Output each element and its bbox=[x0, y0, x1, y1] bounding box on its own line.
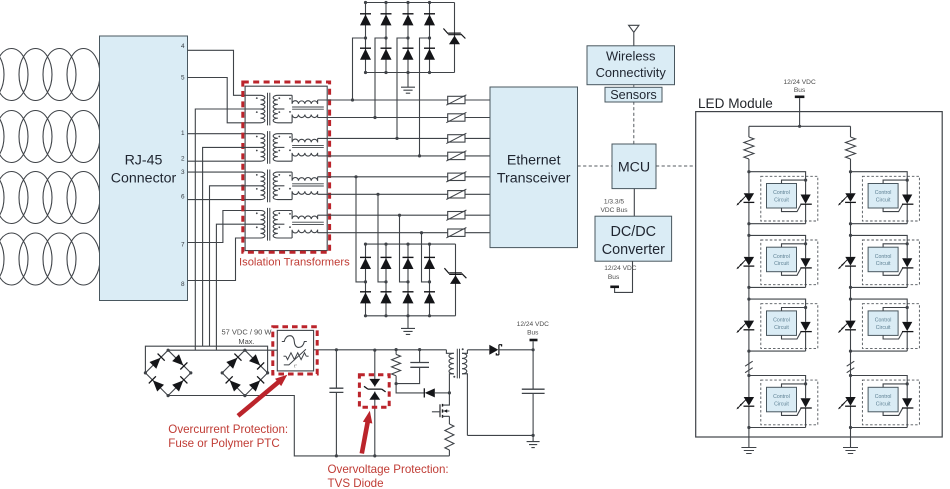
bottom rectifier diode column 1 bbox=[360, 243, 371, 318]
wire bridge AC rail upper bbox=[145, 346, 267, 373]
top rectifier ground bbox=[407, 73, 409, 88]
svg-text:12/24 VDC: 12/24 VDC bbox=[517, 321, 549, 328]
fuse/PTC black box bbox=[277, 330, 313, 371]
svg-text:Circuit: Circuit bbox=[774, 401, 789, 407]
wire bottom rectifier tap 8 bbox=[420, 231, 430, 282]
svg-text:LED Module: LED Module bbox=[698, 96, 773, 111]
LED Module box bbox=[696, 112, 943, 437]
twisted pair cable 4 bbox=[0, 233, 100, 285]
wire stage link 1-2 (right) bbox=[850, 224, 852, 236]
wire pin 8 to T4 bbox=[188, 238, 261, 281]
transformer T1 polarity dots bbox=[256, 97, 291, 113]
svg-text:Transceiver: Transceiver bbox=[497, 171, 571, 187]
wire DC/DC 12V output bbox=[615, 261, 633, 292]
svg-text:Fuse or Polymer PTC: Fuse or Polymer PTC bbox=[168, 437, 279, 450]
TVS red dashed box bbox=[359, 375, 389, 408]
transformer T4 secondary tap stub bbox=[278, 223, 285, 225]
transformer T4 choke top winding bbox=[292, 211, 318, 220]
wire clamp node to diode bbox=[396, 384, 424, 393]
svg-text:Circuit: Circuit bbox=[774, 261, 789, 267]
transformer T2 polarity dots bbox=[256, 136, 291, 152]
wire signal line 3 bbox=[318, 137, 490, 139]
RJ-45 connector bbox=[100, 36, 188, 301]
svg-text:8: 8 bbox=[181, 281, 185, 288]
termination impedance Z8 bbox=[446, 228, 466, 238]
transformer T1 secondary winding bbox=[273, 95, 292, 123]
svg-text:Circuit: Circuit bbox=[876, 261, 891, 267]
wire pin 7 to T4 bbox=[188, 211, 261, 243]
termination impedance Z7 bbox=[446, 210, 466, 220]
isolation transformers enclosure bbox=[245, 86, 327, 250]
svg-text:Wireless: Wireless bbox=[606, 48, 655, 63]
label 12/24 VDC Bus (LED) bbox=[783, 79, 815, 94]
transformer T2 choke exits bbox=[317, 138, 319, 156]
wire top rectifier tap 2 bbox=[373, 38, 386, 119]
isolation transformers red dashed box bbox=[243, 82, 330, 252]
svg-text:Control: Control bbox=[773, 254, 790, 260]
transformer T2 primary winding bbox=[261, 134, 265, 162]
label 12/24 VDC Bus (output) bbox=[517, 321, 549, 336]
bottom rectifier TVS diode bbox=[444, 244, 466, 316]
LED string ground (left) bbox=[748, 428, 750, 448]
svg-text:Isolation Transformers: Isolation Transformers bbox=[239, 256, 350, 268]
svg-text:DC/DC: DC/DC bbox=[611, 224, 657, 240]
DC/DC Converter box bbox=[595, 216, 672, 261]
label Overvoltage Protection bbox=[328, 463, 449, 489]
wire signal line 4 bbox=[318, 155, 490, 157]
svg-text:Circuit: Circuit bbox=[774, 198, 789, 204]
wire stage link 1-2 (left) bbox=[748, 224, 750, 236]
secondary ground symbol bbox=[527, 442, 540, 448]
transformer T4 secondary winding bbox=[273, 211, 292, 239]
transformer T3 secondary winding bbox=[273, 172, 292, 200]
svg-text:1: 1 bbox=[181, 130, 185, 137]
wire pin 2 to T2 bbox=[188, 160, 261, 162]
Ethernet Transceiver box bbox=[490, 87, 578, 248]
terminal 12/24 VDC bus (LED) bbox=[795, 97, 805, 127]
transformer T4 choke exits bbox=[317, 215, 319, 233]
wire bridge AC rail lower bbox=[168, 349, 277, 351]
top rectifier rails bbox=[366, 3, 455, 73]
Sensors box bbox=[605, 87, 662, 102]
svg-text:12/24 VDC: 12/24 VDC bbox=[604, 265, 636, 272]
termination impedance Z1 bbox=[446, 95, 466, 105]
wire T2 primary center tap to bridge bbox=[203, 147, 261, 346]
LED string ground (right) bbox=[850, 428, 852, 448]
transformer T3 choke bottom winding bbox=[292, 191, 318, 199]
antenna bbox=[629, 25, 639, 46]
wire stage link 3-4 (left) bbox=[748, 351, 750, 375]
wire signal line 7 bbox=[318, 214, 490, 216]
bridge rectifier BR1 bbox=[144, 349, 193, 398]
svg-text:2: 2 bbox=[181, 156, 185, 163]
transformer T2 core bbox=[268, 131, 270, 164]
LED stage 3 (right) bbox=[838, 298, 919, 353]
svg-text:Connector: Connector bbox=[111, 171, 177, 187]
twisted pair cable 1 bbox=[0, 49, 100, 101]
transformer T2 secondary winding bbox=[273, 134, 292, 162]
svg-text:4: 4 bbox=[181, 43, 185, 50]
bottom rectifier diode column 2 bbox=[381, 243, 392, 318]
svg-text:57 VDC / 90 W: 57 VDC / 90 W bbox=[221, 328, 272, 337]
wire MCU to DC/DC bbox=[633, 189, 635, 217]
twisted pair cable 2 bbox=[0, 111, 100, 163]
top rectifier diode column 1 bbox=[360, 1, 371, 74]
svg-text:Circuit: Circuit bbox=[876, 198, 891, 204]
wire top rectifier tap 3 bbox=[395, 38, 408, 140]
bottom rectifier rails bbox=[366, 244, 456, 316]
transformer T1 primary winding bbox=[261, 95, 265, 123]
transformer T1 secondary tap stub bbox=[278, 108, 285, 110]
svg-text:Control: Control bbox=[875, 254, 892, 260]
top rectifier diode column 2 bbox=[381, 1, 392, 74]
wire signal line 1 bbox=[318, 99, 490, 101]
RJ-45 pin numbers bbox=[181, 43, 185, 288]
wire signal line 2 bbox=[318, 117, 490, 119]
transformer T1 choke exits bbox=[317, 100, 319, 118]
transformer T3 polarity dots bbox=[256, 174, 291, 190]
svg-text:5: 5 bbox=[181, 74, 185, 81]
wire pin 5 to T1 bbox=[188, 78, 261, 123]
svg-text:Bus: Bus bbox=[794, 87, 806, 94]
transformer T2 secondary tap stub bbox=[278, 146, 285, 148]
wire pin 4 to T1 bbox=[188, 50, 261, 95]
wire top rectifier tap 4 bbox=[418, 38, 430, 157]
bottom rectifier ground symbol bbox=[401, 328, 415, 334]
LED stage 2 (right) bbox=[838, 234, 919, 289]
wire stage link 2-3 (right) bbox=[850, 287, 852, 299]
transformer T2 choke top winding bbox=[292, 134, 318, 143]
transformer T3 primary winding bbox=[261, 172, 265, 200]
dashed link Wireless-Sensors-MCU bbox=[633, 85, 635, 144]
svg-text:Max.: Max. bbox=[238, 337, 254, 346]
svg-text:Control: Control bbox=[773, 394, 790, 400]
transformer T4 choke bottom winding bbox=[292, 230, 318, 238]
string continuation marks (left) bbox=[745, 361, 753, 373]
svg-text:Overcurrent Protection:: Overcurrent Protection: bbox=[168, 423, 288, 436]
wire bottom rectifier tap 6 bbox=[376, 193, 386, 282]
PTC thermistor symbol bbox=[284, 349, 309, 368]
svg-text:Control: Control bbox=[773, 318, 790, 324]
transformer T2 choke core bbox=[292, 145, 324, 147]
LED string ground symbol (right) bbox=[843, 448, 858, 454]
top rectifier diode column 4 bbox=[424, 1, 435, 74]
wire T1 primary center tap to bridge bbox=[195, 109, 260, 350]
string continuation marks (right) bbox=[847, 361, 855, 373]
svg-text:Control: Control bbox=[875, 394, 892, 400]
wire signal line 5 bbox=[318, 176, 490, 178]
TVS diode (bidirectional) bbox=[364, 349, 386, 458]
terminal 12/24 VDC bus (output) bbox=[530, 340, 538, 350]
svg-text:Ethernet: Ethernet bbox=[507, 153, 561, 169]
LED stage 1 (right) bbox=[838, 170, 919, 225]
svg-text:Control: Control bbox=[875, 318, 892, 324]
twisted pair cable 3 bbox=[0, 172, 100, 224]
svg-text:Bus: Bus bbox=[527, 329, 539, 336]
LED stage 3 (left) bbox=[736, 298, 817, 353]
MOSFET Q1 bbox=[432, 393, 450, 424]
transformer T1 choke core bbox=[292, 107, 324, 109]
label 57 VDC / 90 W Max. bbox=[221, 328, 272, 347]
LED bus wire bbox=[749, 125, 851, 128]
flyback transformer TX1 bbox=[446, 348, 467, 435]
transformer T2 choke bottom winding bbox=[292, 153, 318, 161]
svg-text:MCU: MCU bbox=[618, 160, 650, 176]
transformer T1 choke bottom winding bbox=[292, 115, 318, 123]
svg-text:Control: Control bbox=[773, 190, 790, 196]
label 12/24 VDC Bus (DC/DC) bbox=[604, 265, 636, 281]
transformer T3 choke exits bbox=[317, 177, 319, 195]
transformer T3 secondary tap stub bbox=[278, 185, 285, 187]
bottom rectifier ground bbox=[407, 316, 409, 329]
wire T4 primary center tap to bridge bbox=[216, 224, 260, 350]
LED stage 4 (left) bbox=[736, 374, 817, 429]
svg-text:12/24 VDC: 12/24 VDC bbox=[783, 79, 815, 86]
transformer T3 choke top winding bbox=[292, 172, 318, 181]
transformer T3 choke core bbox=[292, 184, 324, 186]
label Overcurrent Protection bbox=[168, 423, 288, 450]
wire pin 6 to T3 bbox=[188, 199, 261, 201]
top rectifier TVS diode bbox=[443, 3, 465, 73]
termination impedance Z2 bbox=[446, 112, 466, 122]
svg-text:3: 3 bbox=[181, 169, 185, 176]
svg-text:7: 7 bbox=[181, 241, 185, 248]
transformer T1 core bbox=[268, 93, 270, 126]
transformer T3 core bbox=[268, 170, 270, 203]
svg-text:TVS Diode: TVS Diode bbox=[328, 477, 384, 489]
transformer T4 choke core bbox=[292, 222, 324, 224]
LED string resistor (right) bbox=[846, 126, 856, 171]
wire secondary return bbox=[467, 434, 533, 436]
svg-text:Converter: Converter bbox=[602, 242, 665, 258]
top rectifier ground symbol bbox=[401, 87, 415, 93]
wire DC minus rail bbox=[168, 396, 449, 456]
red arrow overcurrent bbox=[238, 375, 287, 416]
fuse/PTC red dashed box bbox=[273, 327, 317, 374]
svg-text:Circuit: Circuit bbox=[774, 325, 789, 331]
output diode D2 bbox=[467, 345, 534, 355]
LED string resistor (left) bbox=[744, 126, 754, 171]
dashed link Ethernet to MCU bbox=[578, 165, 613, 167]
wire top rectifier tap 1 bbox=[351, 38, 366, 102]
svg-text:Bus: Bus bbox=[608, 274, 620, 281]
top rectifier diode column 3 bbox=[403, 1, 414, 74]
svg-text:t°: t° bbox=[294, 363, 297, 368]
wire DC plus rail bbox=[314, 349, 447, 351]
svg-text:Circuit: Circuit bbox=[876, 401, 891, 407]
snubber resistor R1 bbox=[392, 348, 401, 385]
termination impedance Z5 bbox=[446, 172, 466, 182]
output capacitor C3 bbox=[522, 350, 545, 437]
termination impedance Z3 bbox=[446, 133, 466, 143]
svg-text:Connectivity: Connectivity bbox=[596, 65, 667, 80]
bottom rectifier diode column 4 bbox=[424, 243, 435, 318]
termination impedance Z4 bbox=[446, 151, 466, 161]
LED string ground symbol (left) bbox=[741, 448, 756, 454]
terminal 12/24 VDC bus (DC/DC) bbox=[610, 285, 619, 288]
svg-text:Circuit: Circuit bbox=[876, 325, 891, 331]
bottom rectifier diode column 3 bbox=[403, 243, 414, 318]
svg-text:1/3.3/5: 1/3.3/5 bbox=[604, 198, 624, 205]
wire T3 primary center tap to bridge bbox=[210, 186, 261, 346]
transformer T4 core bbox=[268, 208, 270, 241]
wire pin 3 to T3 bbox=[188, 171, 261, 173]
secondary ground bbox=[532, 435, 534, 441]
wire bottom rectifier tap 5 bbox=[354, 175, 365, 282]
capacitor C1 bbox=[329, 348, 343, 457]
wire signal line 8 bbox=[318, 232, 490, 234]
Wireless Connectivity box bbox=[587, 46, 675, 85]
LED stage 1 (left) bbox=[736, 170, 817, 225]
wire signal line 6 bbox=[318, 193, 490, 195]
source resistor R2 bbox=[445, 424, 454, 456]
red arrow overvoltage bbox=[362, 411, 373, 454]
svg-text:VDC Bus: VDC Bus bbox=[600, 207, 628, 214]
wire stage link 2-3 (left) bbox=[748, 287, 750, 299]
wire stage link 3-4 (right) bbox=[850, 351, 852, 375]
clamp diode D1 bbox=[424, 388, 451, 397]
wire bottom rectifier tap 7 bbox=[398, 214, 408, 282]
MCU box bbox=[612, 144, 656, 189]
termination impedance Z6 bbox=[446, 189, 466, 199]
fuse symbol bbox=[282, 336, 307, 348]
svg-text:Control: Control bbox=[875, 190, 892, 196]
transformer T4 primary winding bbox=[261, 211, 265, 239]
transformer T1 choke top winding bbox=[292, 95, 318, 104]
svg-text:6: 6 bbox=[181, 194, 185, 201]
svg-text:Sensors: Sensors bbox=[610, 88, 657, 102]
wire pin 1 to T2 bbox=[188, 133, 261, 135]
svg-text:Overvoltage Protection:: Overvoltage Protection: bbox=[328, 463, 449, 476]
snubber capacitor C2 bbox=[396, 348, 429, 384]
transformer T4 polarity dots bbox=[256, 212, 291, 228]
bridge rectifier BR2 bbox=[221, 349, 270, 398]
LED stage 2 (left) bbox=[736, 234, 817, 289]
LED stage 4 (right) bbox=[838, 374, 919, 429]
svg-text:RJ-45: RJ-45 bbox=[125, 153, 163, 169]
label 1/3.3/5 VDC Bus bbox=[600, 198, 628, 214]
dashed link MCU to LED module bbox=[656, 165, 696, 167]
